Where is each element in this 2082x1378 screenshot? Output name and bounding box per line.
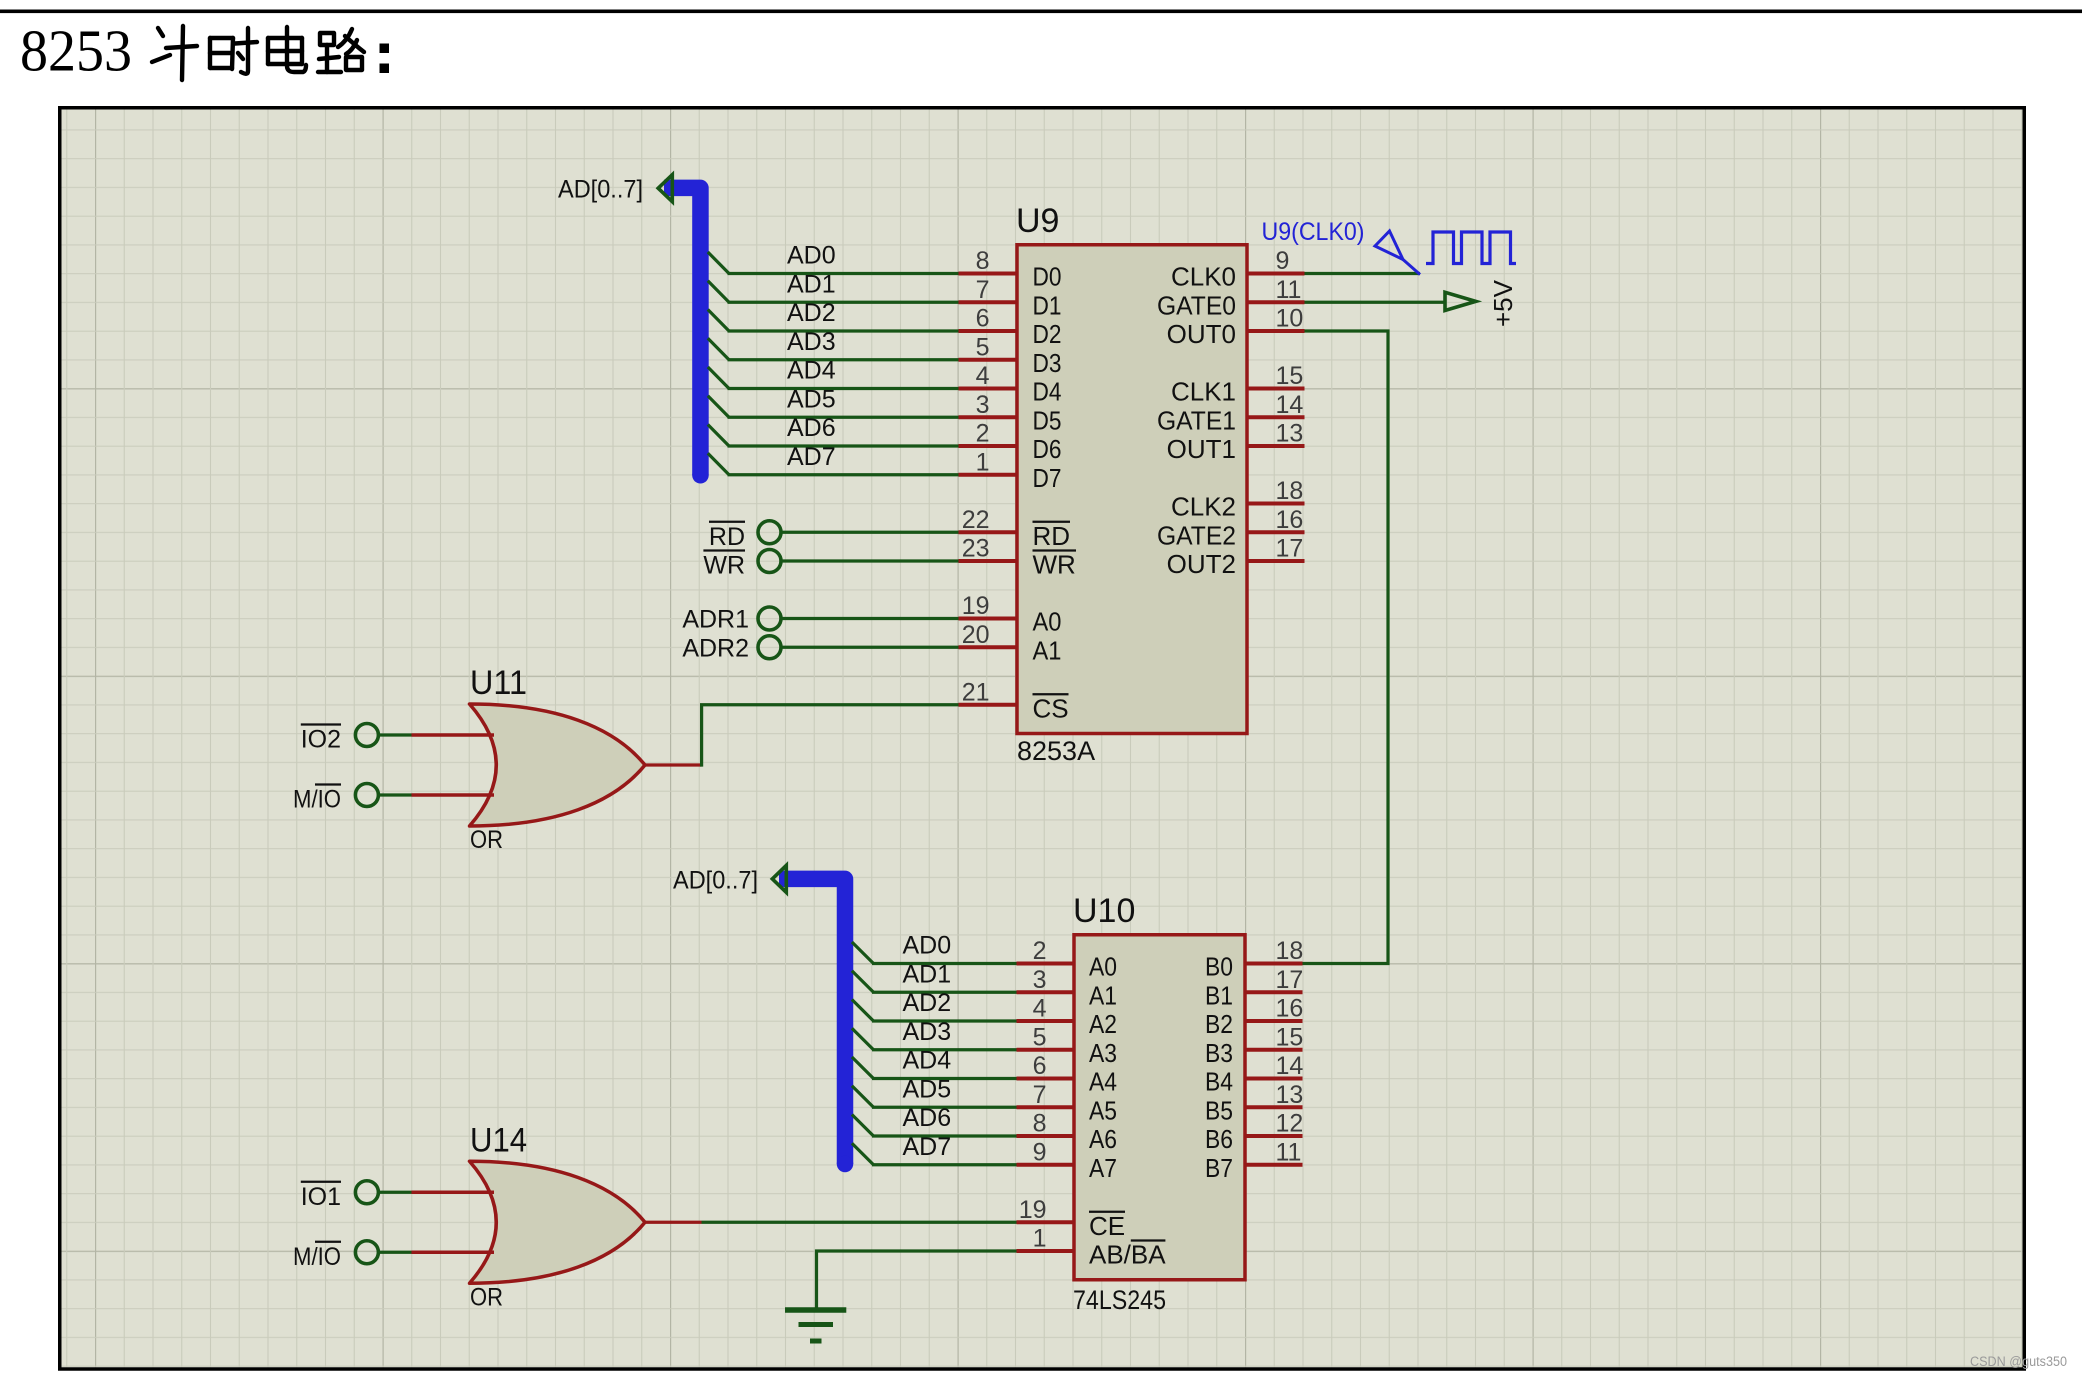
svg-text:GATE0: GATE0	[1157, 290, 1236, 320]
svg-text:ADR1: ADR1	[682, 606, 749, 634]
svg-text:A1: A1	[1089, 980, 1117, 1010]
svg-text:B4: B4	[1205, 1067, 1233, 1097]
svg-text:13: 13	[1276, 420, 1304, 448]
svg-text:U9(CLK0): U9(CLK0)	[1262, 218, 1365, 246]
svg-text:B1: B1	[1205, 980, 1233, 1010]
svg-text:74LS245: 74LS245	[1073, 1285, 1166, 1315]
svg-text:CLK2: CLK2	[1171, 492, 1236, 522]
svg-text:19: 19	[962, 592, 990, 620]
svg-text:A0: A0	[1033, 607, 1062, 637]
svg-text:OUT0: OUT0	[1167, 319, 1236, 349]
svg-text:WR: WR	[1033, 550, 1076, 580]
svg-text:19: 19	[1019, 1196, 1047, 1224]
svg-text:A7: A7	[1089, 1153, 1117, 1183]
svg-text:AD4: AD4	[787, 357, 836, 385]
svg-text:M/IO: M/IO	[293, 1243, 341, 1271]
svg-text:D4: D4	[1033, 377, 1062, 407]
svg-text:11: 11	[1276, 276, 1302, 304]
svg-text:AD2: AD2	[903, 989, 952, 1017]
svg-text:U14: U14	[470, 1121, 527, 1159]
svg-text:RD: RD	[709, 523, 745, 551]
svg-text:14: 14	[1276, 1052, 1304, 1080]
svg-text:6: 6	[1033, 1052, 1047, 1080]
svg-text:+5V: +5V	[1488, 279, 1518, 327]
svg-text:OUT1: OUT1	[1167, 434, 1236, 464]
svg-text:A0: A0	[1089, 952, 1117, 982]
svg-text:AD6: AD6	[903, 1104, 952, 1132]
svg-text:AD1: AD1	[787, 270, 836, 298]
svg-text:15: 15	[1276, 362, 1304, 390]
svg-text:U9: U9	[1016, 202, 1059, 240]
svg-text:18: 18	[1276, 937, 1304, 965]
svg-text:2: 2	[976, 420, 990, 448]
svg-text:AD5: AD5	[787, 385, 836, 413]
svg-text:23: 23	[962, 535, 990, 563]
svg-text:IO2: IO2	[301, 726, 341, 754]
svg-text:21: 21	[962, 678, 990, 706]
svg-text:B0: B0	[1205, 952, 1233, 982]
svg-text:A1: A1	[1033, 635, 1062, 665]
svg-text:AD[0..7]: AD[0..7]	[558, 176, 643, 204]
svg-text:AD1: AD1	[903, 960, 952, 988]
svg-text:1: 1	[1033, 1225, 1047, 1253]
svg-text:B5: B5	[1205, 1095, 1233, 1125]
svg-text:7: 7	[1033, 1081, 1047, 1109]
svg-text:7: 7	[976, 276, 990, 304]
svg-text:CSDN @guts350: CSDN @guts350	[1970, 1354, 2067, 1369]
svg-text:1: 1	[976, 448, 990, 476]
svg-text:AD[0..7]: AD[0..7]	[673, 867, 758, 895]
svg-text:CLK1: CLK1	[1171, 377, 1236, 407]
svg-text:U10: U10	[1073, 892, 1135, 930]
svg-text:A4: A4	[1089, 1067, 1117, 1097]
svg-text:AD7: AD7	[903, 1133, 952, 1161]
svg-text:8: 8	[976, 247, 990, 275]
svg-text:5: 5	[1033, 1023, 1047, 1051]
svg-text:M/IO: M/IO	[293, 786, 341, 814]
svg-text:A3: A3	[1089, 1038, 1117, 1068]
svg-text:A2: A2	[1089, 1009, 1117, 1039]
svg-text:ADR2: ADR2	[682, 634, 749, 662]
svg-text:16: 16	[1276, 995, 1304, 1023]
svg-text:B6: B6	[1205, 1124, 1233, 1154]
svg-text:AD4: AD4	[903, 1047, 952, 1075]
svg-text:3: 3	[976, 391, 990, 419]
svg-text:CE: CE	[1089, 1211, 1125, 1241]
svg-text:B3: B3	[1205, 1038, 1233, 1068]
svg-text:D2: D2	[1033, 319, 1062, 349]
svg-text:17: 17	[1276, 966, 1304, 994]
svg-text:D5: D5	[1033, 405, 1062, 435]
svg-text:CLK0: CLK0	[1171, 262, 1236, 292]
svg-text:AB/BA: AB/BA	[1089, 1240, 1166, 1270]
svg-text:CS: CS	[1033, 693, 1069, 723]
svg-text:D0: D0	[1033, 262, 1062, 292]
svg-text:GATE1: GATE1	[1157, 405, 1236, 435]
svg-text:14: 14	[1276, 391, 1304, 419]
svg-text:6: 6	[976, 305, 990, 333]
svg-text:9: 9	[1033, 1138, 1047, 1166]
svg-text:15: 15	[1276, 1023, 1304, 1051]
svg-text:AD0: AD0	[787, 242, 836, 270]
svg-text:AD6: AD6	[787, 414, 836, 442]
svg-text:4: 4	[976, 362, 990, 390]
svg-text:GATE2: GATE2	[1157, 520, 1236, 550]
svg-text:AD2: AD2	[787, 299, 836, 327]
svg-text:5: 5	[976, 333, 990, 361]
svg-text:3: 3	[1033, 966, 1047, 994]
svg-text:8253: 8253	[20, 18, 132, 84]
svg-text:D3: D3	[1033, 348, 1062, 378]
svg-text:10: 10	[1276, 305, 1304, 333]
svg-text:8253A: 8253A	[1017, 736, 1095, 766]
svg-text:AD7: AD7	[787, 443, 836, 471]
svg-text:4: 4	[1033, 995, 1047, 1023]
svg-text:13: 13	[1276, 1081, 1304, 1109]
svg-text:9: 9	[1276, 247, 1290, 275]
svg-text:D1: D1	[1033, 290, 1062, 320]
svg-text:AD5: AD5	[903, 1075, 952, 1103]
svg-text:18: 18	[1276, 477, 1304, 505]
svg-text:AD0: AD0	[903, 932, 952, 960]
svg-text:22: 22	[962, 506, 990, 534]
svg-text:20: 20	[962, 621, 990, 649]
svg-text:D6: D6	[1033, 434, 1062, 464]
svg-text:12: 12	[1276, 1110, 1304, 1138]
svg-text:OUT2: OUT2	[1167, 549, 1236, 579]
svg-text:OR: OR	[470, 826, 503, 854]
svg-text:17: 17	[1276, 535, 1304, 563]
svg-text:11: 11	[1276, 1138, 1302, 1166]
svg-text:IO1: IO1	[301, 1183, 341, 1211]
svg-text:2: 2	[1033, 937, 1047, 965]
svg-text:B7: B7	[1205, 1153, 1233, 1183]
svg-text:B2: B2	[1205, 1009, 1233, 1039]
svg-text:WR: WR	[703, 552, 745, 580]
svg-text:OR: OR	[470, 1283, 503, 1311]
svg-text:A5: A5	[1089, 1095, 1117, 1125]
svg-text:16: 16	[1276, 506, 1304, 534]
svg-text:RD: RD	[1033, 521, 1071, 551]
svg-text:D7: D7	[1033, 463, 1062, 493]
svg-text:AD3: AD3	[787, 328, 836, 356]
svg-text:AD3: AD3	[903, 1018, 952, 1046]
svg-text:U11: U11	[470, 664, 527, 702]
svg-text:A6: A6	[1089, 1124, 1117, 1154]
svg-text:8: 8	[1033, 1110, 1047, 1138]
